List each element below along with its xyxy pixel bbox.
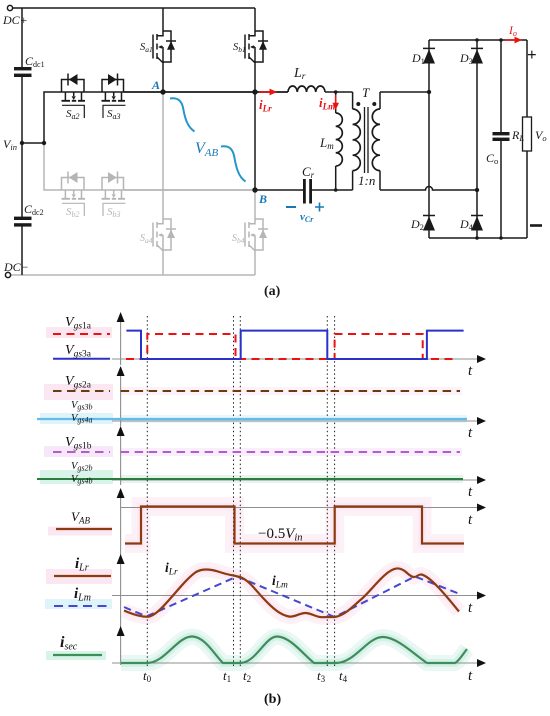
capacitor Cdc2 bbox=[14, 217, 32, 227]
wire secondary bottom to rectifier (hop over leg1) bbox=[380, 187, 477, 190]
waveform Vgs2a brown dashed bbox=[53, 390, 460, 392]
node rectifier leg1 mid junction bbox=[427, 90, 431, 94]
top DC+ rail bbox=[13, 7, 255, 9]
dotted time lines t0 t1 t2 t3 t4 bbox=[147, 316, 334, 668]
svg-text:B: B bbox=[258, 192, 267, 206]
node Vin junction dots bbox=[20, 141, 24, 145]
waveform iLr dark red curve bbox=[54, 568, 459, 617]
waveform Vgs3a blue solid bbox=[53, 331, 464, 359]
circuit text labels bbox=[2, 13, 547, 299]
svg-text:1:n: 1:n bbox=[358, 173, 375, 188]
svg-text:(b): (b) bbox=[264, 692, 281, 707]
annotation VAB curve bbox=[170, 98, 246, 181]
pink soft halo along VAB waveform bbox=[125, 507, 464, 544]
axes grids bbox=[112, 316, 478, 665]
capacitor Co bbox=[493, 38, 510, 240]
waveform iLm blue dashed bbox=[54, 577, 461, 618]
svg-text:Vgs4b: Vgs4b bbox=[71, 474, 93, 486]
output bottom rail bbox=[429, 237, 527, 239]
svg-text:Vgs4a: Vgs4a bbox=[71, 413, 93, 425]
transistor Sa3 bbox=[102, 74, 126, 122]
wire bottom DC- rail bbox=[8, 274, 255, 276]
cyan glow along isec waveform bbox=[121, 637, 467, 664]
DC- terminal bbox=[5, 272, 10, 277]
transformer T secondary bbox=[372, 92, 380, 190]
waveform labels bbox=[60, 315, 473, 707]
wire between Sa2 and Sa3 bbox=[62, 91, 289, 93]
transistor Sb1 (upper leg b) bbox=[233, 8, 268, 92]
pink glow along VAB waveform bbox=[125, 507, 464, 544]
wire Sb3 to node B bbox=[124, 189, 256, 191]
cyan soft halo along isec waveform bbox=[121, 637, 467, 664]
wire leg b down to node B bbox=[254, 92, 256, 190]
diode D2 bbox=[423, 216, 435, 231]
left input rail bbox=[21, 8, 23, 275]
transistor Sa1 (upper leg a) bbox=[140, 8, 176, 92]
svg-text:DC+: DC+ bbox=[2, 13, 28, 27]
wire node A down to leg-a lower junction bbox=[162, 92, 164, 219]
svg-text:+: + bbox=[527, 45, 537, 64]
label iLm red with arrow bbox=[319, 95, 339, 112]
node Lm bottom junction bbox=[334, 188, 338, 192]
diode D1 bbox=[423, 48, 435, 63]
svg-text:DC−: DC− bbox=[3, 260, 29, 274]
DC+ terminal bbox=[7, 5, 12, 10]
greyed inactive half (drawn first, underneath) bbox=[8, 92, 268, 275]
capacitor Cdc1 bbox=[14, 67, 32, 77]
transistor Sa4 (lower leg a) bbox=[140, 219, 176, 254]
waveform Vgs3b Vgs4a light blue bbox=[37, 418, 467, 420]
wire secondary top to rectifier bbox=[380, 91, 429, 93]
label - output bbox=[530, 224, 542, 227]
axis arrowheads bbox=[117, 312, 486, 667]
wire Sa3 to node A to leg b bbox=[124, 91, 289, 93]
axis row4 t bbox=[121, 507, 478, 509]
inductor Lm bbox=[336, 92, 343, 190]
rectifier leg 2 rail bbox=[476, 40, 478, 238]
node B junction dot bbox=[252, 187, 257, 192]
node Lm top junction bbox=[334, 90, 338, 94]
pink soft halo along iLr waveform bbox=[124, 568, 459, 617]
wire leg-a lower mosfet to bottom rail bbox=[162, 254, 164, 275]
wire Vin node to switch row bbox=[22, 92, 62, 143]
tint glows behind waveforms bbox=[40, 327, 467, 660]
svg-text:Vgs2b: Vgs2b bbox=[71, 461, 93, 473]
wire Lr to transformer primary top bbox=[325, 91, 353, 93]
inductor Lr bbox=[288, 86, 325, 92]
diode D3 bbox=[471, 48, 483, 63]
pink glow along iLr waveform bbox=[124, 568, 459, 617]
transformer T core bbox=[365, 107, 369, 173]
diode D4 bbox=[471, 216, 483, 231]
wire Vin node down to bottom switch row bbox=[44, 143, 62, 190]
node A junction dot bbox=[160, 89, 165, 94]
svg-text:Vgs3b: Vgs3b bbox=[71, 400, 93, 412]
axis row1 t bbox=[112, 358, 478, 360]
waveform VAB dark red square bbox=[56, 507, 464, 544]
transformer T primary bbox=[353, 92, 361, 190]
transistor Sa2 bbox=[62, 74, 86, 122]
axis row3 t bbox=[112, 479, 478, 481]
resistor RL bbox=[475, 38, 531, 240]
axis row6 t bbox=[112, 662, 478, 664]
capacitor Cr bbox=[303, 179, 312, 204]
rectifier leg 1 rail bbox=[428, 40, 430, 238]
waveform Vgs2b Vgs4b green bbox=[37, 478, 463, 480]
output top rail bbox=[429, 39, 527, 41]
wire between Sb2 and Sb3 bbox=[62, 189, 256, 191]
label Io red with arrow bbox=[505, 25, 522, 43]
waveform Vgs1a red dashed bbox=[53, 334, 458, 359]
axis row2 t bbox=[112, 420, 478, 422]
wire leg-b lower mosfet to bottom rail bbox=[254, 254, 256, 275]
transistor Sb4 (lower leg b) bbox=[232, 219, 268, 254]
node at Sb1 source junction bbox=[252, 89, 257, 94]
label iLr red with arrow bbox=[259, 89, 277, 114]
wire Cr to transformer primary bottom bbox=[312, 189, 353, 191]
node rectifier leg2 mid junction bbox=[475, 188, 479, 192]
svg-text:(a): (a) bbox=[264, 284, 281, 299]
waveform isec green humps bbox=[53, 637, 467, 664]
axis row5 t bbox=[112, 595, 478, 597]
waveform Vgs1b violet dashed bbox=[53, 451, 460, 453]
label vCr polarity bbox=[286, 203, 324, 225]
transistor Sb3 bbox=[102, 172, 126, 220]
wire node B down to leg-b lower mosfet bbox=[254, 190, 256, 219]
svg-text:T: T bbox=[362, 85, 370, 100]
wire node B to Cr bbox=[255, 189, 304, 191]
svg-text:A: A bbox=[151, 78, 160, 92]
transistor Sb2 bbox=[62, 172, 86, 220]
